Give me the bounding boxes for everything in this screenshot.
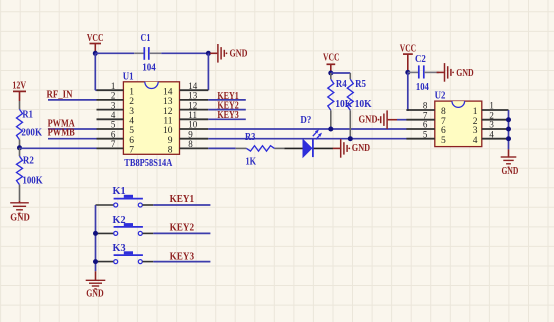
svg-text:9: 9 — [168, 136, 173, 146]
resistor R2 — [19, 148, 21, 156]
svg-text:C1: C1 — [141, 33, 151, 44]
node U2 pin4 junction — [506, 136, 511, 141]
ground under R2 — [19, 201, 21, 203]
node K3 junction — [93, 259, 98, 264]
wire K1 to KEY1 — [153, 204, 210, 206]
wire U1 pin 13 KEY1 — [208, 99, 246, 101]
wire U1 pin 8 to R3 — [208, 147, 235, 149]
power port VCC (U1) — [90, 43, 102, 45]
svg-text:13: 13 — [163, 97, 173, 107]
wire LED cathode to GND — [314, 147, 333, 149]
wire U2 right pins to GND — [508, 110, 510, 149]
U1 left pins 1-7 — [97, 89, 124, 91]
svg-text:TB8P58S14A: TB8P58S14A — [124, 158, 173, 169]
wire VCC junction to R5 — [331, 72, 351, 74]
svg-text:11: 11 — [163, 117, 172, 127]
resistor R3 — [236, 147, 247, 149]
svg-text:200K: 200K — [21, 128, 42, 139]
wire GND to U2 pin 7 — [397, 119, 407, 121]
svg-text:5: 5 — [423, 129, 428, 139]
wire R1/R2 junction to U1 pin 7 — [20, 147, 97, 149]
IC U2 — [435, 101, 482, 147]
svg-text:GND: GND — [10, 213, 30, 224]
wire K2 to KEY2 — [153, 232, 210, 234]
wire VCC down to U1 pin 1 — [94, 53, 96, 90]
svg-text:VCC: VCC — [400, 43, 416, 54]
wire down to U1 pin 14 — [207, 53, 209, 90]
svg-text:2: 2 — [129, 97, 134, 107]
svg-text:1: 1 — [111, 81, 116, 91]
power port 12V — [13, 90, 26, 92]
svg-text:6: 6 — [111, 129, 116, 139]
IC U1 TB8P58S14A — [123, 82, 179, 155]
svg-text:7: 7 — [129, 146, 134, 156]
capacitor C1 — [134, 52, 144, 54]
svg-text:R2: R2 — [23, 156, 34, 167]
svg-text:1K: 1K — [246, 156, 257, 167]
svg-text:12: 12 — [188, 100, 197, 110]
node VCC-C2 junction — [405, 70, 410, 75]
node R1-R2 junction — [17, 145, 22, 150]
ground under U2 — [508, 149, 510, 157]
power port VCC (R4 R5) — [327, 63, 336, 65]
wire U1 pin 10 to U2 pin 6 — [208, 128, 406, 130]
diode D7 (LED) — [284, 147, 303, 149]
svg-text:9: 9 — [188, 129, 193, 139]
svg-text:4: 4 — [489, 129, 494, 139]
svg-text:GND: GND — [230, 49, 248, 60]
switch K2 — [96, 232, 114, 234]
U2 left pins 8-5 — [406, 109, 434, 111]
svg-text:8: 8 — [423, 101, 428, 111]
node VCC-C1 junction — [93, 51, 98, 56]
U2 right pins 1-4 — [482, 109, 509, 111]
wire VCC to C1 — [95, 52, 134, 54]
svg-text:D?: D? — [300, 115, 311, 126]
svg-text:U2: U2 — [435, 91, 446, 102]
svg-text:KEY1: KEY1 — [170, 194, 195, 205]
svg-text:12: 12 — [163, 107, 173, 117]
svg-text:7: 7 — [111, 139, 116, 149]
node R4 to pin10 wire junction — [328, 127, 333, 132]
wire U1 pin 12 KEY2 — [208, 109, 246, 111]
node VCC-R4 junction — [328, 71, 333, 76]
svg-text:10: 10 — [188, 120, 198, 130]
ground right of C1 — [210, 52, 217, 54]
svg-text:5: 5 — [441, 136, 446, 146]
svg-text:2: 2 — [111, 91, 116, 101]
wire U1 pin 11 KEY3 — [208, 118, 246, 120]
svg-text:8: 8 — [441, 107, 446, 117]
switch K1 — [96, 204, 114, 206]
svg-text:8: 8 — [168, 146, 173, 156]
svg-text:3: 3 — [111, 100, 116, 110]
svg-text:R3: R3 — [245, 132, 255, 143]
svg-text:R1: R1 — [22, 109, 33, 120]
U1 right pins 14-8 — [180, 89, 209, 91]
capacitor C2 — [408, 71, 418, 73]
svg-text:5: 5 — [129, 126, 134, 136]
svg-text:GND: GND — [352, 143, 370, 154]
svg-text:3: 3 — [489, 120, 494, 130]
node C1-GND junction — [206, 51, 211, 56]
svg-text:PWMB: PWMB — [48, 128, 75, 139]
svg-text:4: 4 — [111, 110, 116, 120]
svg-text:4: 4 — [129, 117, 134, 127]
svg-text:104: 104 — [142, 63, 156, 74]
svg-text:6: 6 — [423, 120, 428, 130]
svg-text:100K: 100K — [22, 176, 42, 187]
svg-text:14: 14 — [163, 87, 173, 97]
svg-text:13: 13 — [188, 91, 198, 101]
svg-text:K2: K2 — [113, 215, 126, 226]
wire K3 to KEY3 — [153, 261, 210, 263]
wire PWMA to U1 pin 5 — [48, 128, 97, 130]
svg-text:1: 1 — [489, 101, 494, 111]
ground under switches — [95, 271, 97, 280]
svg-text:RF_IN: RF_IN — [47, 89, 74, 100]
svg-text:GND: GND — [86, 289, 104, 300]
node K2 junction — [93, 231, 98, 236]
svg-text:6: 6 — [441, 126, 446, 136]
resistor R1 — [19, 101, 21, 109]
svg-text:GND: GND — [359, 114, 378, 125]
svg-text:GND: GND — [502, 166, 519, 177]
svg-text:11: 11 — [188, 110, 197, 120]
svg-text:1: 1 — [473, 107, 478, 117]
node U2 pin3 junction — [506, 127, 511, 132]
resistor R4 — [330, 73, 332, 79]
node R5 to pin9 wire junction — [348, 136, 353, 141]
svg-text:104: 104 — [416, 82, 429, 93]
svg-text:R5: R5 — [355, 79, 366, 90]
svg-text:14: 14 — [188, 81, 198, 91]
node U2 pin2 junction — [506, 117, 511, 122]
ground after LED — [333, 147, 340, 149]
svg-text:KEY2: KEY2 — [170, 223, 195, 234]
wire RF_IN to U1 pin 2 — [48, 99, 97, 101]
svg-text:VCC: VCC — [323, 53, 340, 64]
svg-text:1: 1 — [129, 87, 134, 97]
svg-text:4: 4 — [473, 136, 478, 146]
switch K3 — [96, 261, 114, 263]
svg-text:10K: 10K — [355, 99, 372, 110]
wire C1 to GND — [161, 52, 208, 54]
svg-text:5: 5 — [111, 120, 116, 130]
svg-text:3: 3 — [129, 107, 134, 117]
svg-text:10: 10 — [163, 126, 173, 136]
svg-text:3: 3 — [473, 126, 478, 136]
svg-text:K3: K3 — [113, 243, 126, 254]
svg-text:8: 8 — [188, 139, 193, 149]
svg-text:U1: U1 — [123, 71, 134, 82]
power port VCC (U2) — [403, 53, 413, 55]
svg-text:12V: 12V — [12, 80, 26, 91]
wire VCC down to U2 pin 8 — [407, 72, 409, 110]
ground after C2 — [437, 71, 444, 73]
svg-text:VCC: VCC — [87, 33, 104, 44]
wire U1 pin 9 to U2 pin 5 — [208, 138, 406, 140]
resistor R5 — [349, 73, 351, 79]
wire PWMB to U1 pin 6 — [48, 138, 97, 140]
svg-text:GND: GND — [456, 68, 473, 79]
wire switch common — [95, 205, 97, 271]
svg-text:K1: K1 — [113, 186, 126, 197]
svg-text:C2: C2 — [415, 54, 426, 65]
svg-text:R4: R4 — [336, 79, 347, 90]
svg-text:6: 6 — [129, 136, 134, 146]
